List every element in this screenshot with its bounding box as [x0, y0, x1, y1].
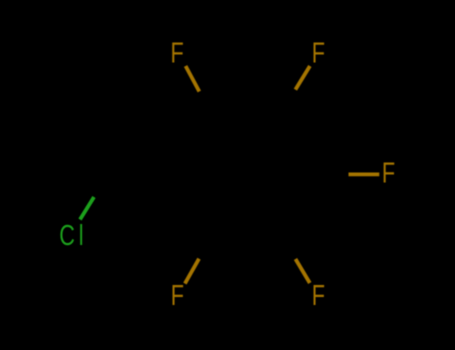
svg-text:F: F: [170, 38, 183, 70]
svg-text:Cl: Cl: [59, 220, 87, 252]
svg-text:F: F: [312, 280, 325, 312]
bond C4-F (right), colored half: [349, 172, 380, 176]
bond C6-F (bottom-left), colored half: [185, 259, 199, 284]
svg-text:F: F: [312, 38, 325, 70]
svg-text:F: F: [171, 280, 184, 312]
bond C2-F (top-left), colored half: [186, 66, 200, 92]
bond C5-F (bottom-right), colored half: [296, 259, 310, 283]
bond C3-F (top-right), colored half: [295, 66, 310, 90]
svg-text:F: F: [382, 158, 395, 190]
bond CH2-Cl, colored half: [80, 197, 94, 220]
